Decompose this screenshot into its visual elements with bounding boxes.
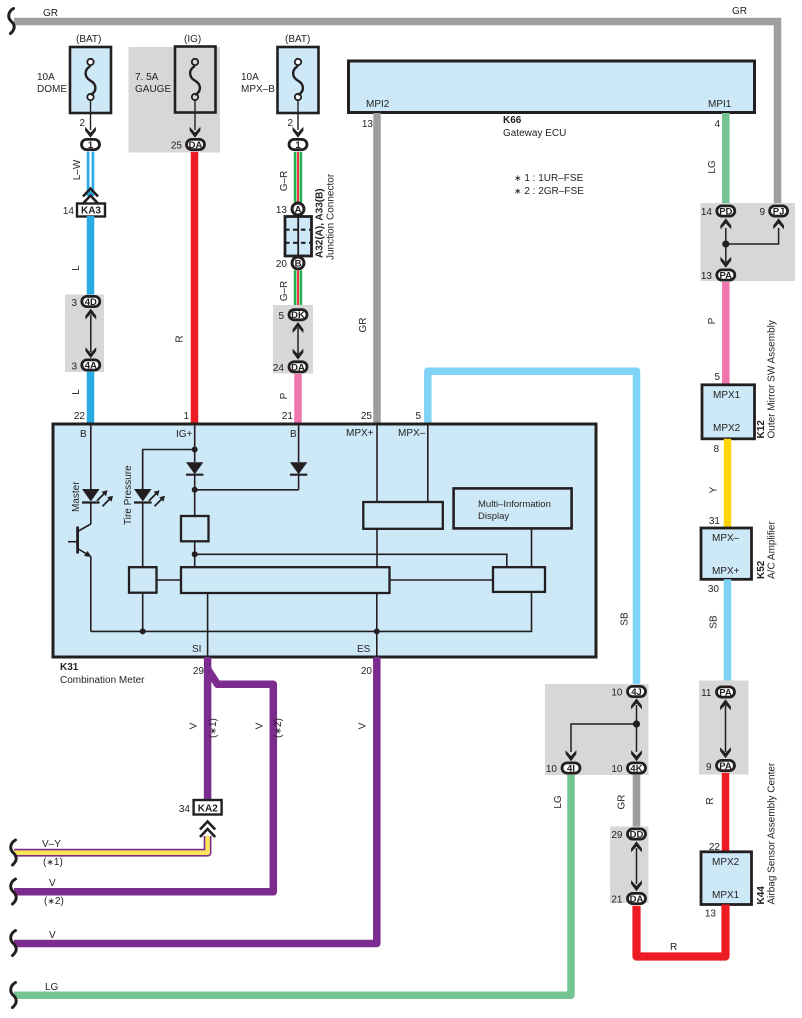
shield box PD/PJ/PA — [701, 203, 796, 281]
svg-text:4: 4 — [714, 119, 720, 130]
fuse F2 7.5A GAUGE — [135, 34, 216, 113]
svg-text:5: 5 — [714, 372, 720, 383]
svg-text:5: 5 — [278, 311, 284, 322]
shield box PA/PA — [699, 681, 749, 775]
wire Y (yellow) K12 pin 8 to K52 pin 31 — [709, 439, 728, 528]
svg-text:GR: GR — [732, 6, 747, 17]
wire G-R to connector DK — [279, 270, 298, 308]
svg-text:KA3: KA3 — [81, 206, 101, 217]
svg-text:7. 5A: 7. 5A — [135, 72, 159, 83]
svg-text:1: 1 — [295, 140, 301, 151]
block U4 (MPX transceiver) — [363, 502, 443, 567]
svg-text:V: V — [189, 722, 200, 729]
wire GR (gray) MPI2 pin 13 to meter pin 25 — [358, 113, 377, 424]
svg-text:14: 14 — [701, 207, 713, 218]
svg-text:MPI2: MPI2 — [366, 99, 390, 110]
svg-text:29: 29 — [193, 666, 205, 677]
svg-text:L–W: L–W — [72, 159, 83, 180]
svg-text:P: P — [279, 392, 290, 399]
connector 9 PA — [706, 760, 735, 773]
svg-text:G–R: G–R — [279, 171, 290, 192]
svg-text:(∗1): (∗1) — [43, 857, 63, 868]
svg-text:25: 25 — [171, 141, 183, 152]
block U5 Multi-Information Display — [454, 488, 572, 567]
connector 4A — [71, 360, 99, 373]
svg-text:24: 24 — [273, 363, 285, 374]
node IG+ / B diode join — [192, 475, 299, 516]
arrow pair PA/PA — [720, 699, 731, 758]
wire MPX- internal — [427, 424, 429, 502]
svg-text:MPX1: MPX1 — [712, 890, 740, 901]
label GR (top right) — [732, 6, 747, 17]
meter pin labels top — [80, 428, 426, 440]
wire L (blue) KA3 to 4D — [71, 216, 91, 297]
wire R (red) K44 pin 13 to DA junction — [670, 909, 716, 954]
svg-text:Airbag Sensor Assembly Center: Airbag Sensor Assembly Center — [767, 762, 778, 904]
svg-text:K52: K52 — [756, 560, 767, 579]
connector 1 (below DOME fuse) — [82, 139, 100, 151]
arrows into PD and PJ with junction — [720, 218, 784, 267]
svg-text:Y: Y — [709, 486, 720, 493]
block U3 (long CPU bar) — [181, 567, 390, 593]
svg-text:DOME: DOME — [37, 84, 67, 95]
svg-text:MPX+: MPX+ — [712, 566, 740, 577]
wire B(21) internal — [298, 424, 300, 462]
meter pin labels bottom — [192, 644, 372, 677]
svg-text:1: 1 — [88, 140, 94, 151]
connector 4D — [71, 296, 99, 309]
svg-text:Display: Display — [478, 511, 509, 522]
diode D2 (B pin 21) — [290, 462, 307, 490]
svg-text:GAUGE: GAUGE — [135, 84, 171, 95]
svg-text:10A: 10A — [37, 72, 55, 83]
svg-text:21: 21 — [611, 895, 623, 906]
svg-text:SB: SB — [620, 612, 631, 626]
wire V (violet) branch *2 — [14, 669, 284, 907]
LED Tire Pressure — [123, 450, 165, 568]
svg-text:13: 13 — [701, 271, 713, 282]
double chevron into KA3 — [83, 189, 98, 204]
svg-text:R: R — [670, 942, 677, 953]
svg-text:K44: K44 — [756, 886, 767, 905]
svg-text:20: 20 — [276, 259, 288, 270]
svg-text:G–R: G–R — [279, 281, 290, 302]
block U6 (right small) — [390, 567, 546, 592]
wire L (blue) 4A to meter pin 22 — [71, 372, 91, 424]
ECU K12 Outer Mirror SW Assembly — [702, 320, 778, 439]
svg-text:Gateway ECU: Gateway ECU — [503, 128, 566, 139]
svg-text:GR: GR — [43, 8, 58, 19]
svg-text:21: 21 — [282, 411, 294, 422]
arrows and junction 4J/4I/4K — [566, 698, 642, 761]
off-page break symbol (V *2) — [11, 879, 17, 904]
svg-text:A: A — [295, 205, 302, 216]
svg-text:PA: PA — [719, 761, 732, 772]
wire LG (light green) 4I to bottom left — [14, 775, 571, 996]
wire R (red) PA to K44 pin 22 — [705, 773, 726, 853]
wire V-Y (violet-yellow) to KA2 — [14, 836, 208, 868]
svg-text:DA: DA — [630, 894, 644, 905]
wire V (violet) SI pin 29 to KA2 — [189, 657, 220, 800]
ECU K66 Gateway ECU — [349, 61, 755, 139]
svg-text:IG+: IG+ — [176, 429, 193, 440]
svg-text:9: 9 — [759, 207, 765, 218]
off-page break symbol (V-Y) — [11, 840, 17, 865]
svg-text:ES: ES — [357, 644, 371, 655]
wire IG+ internal — [194, 424, 196, 462]
connector 1 (below MPX-B fuse) — [289, 139, 307, 151]
arrow pair DD/DA — [631, 841, 642, 891]
svg-text:10: 10 — [546, 764, 558, 775]
note *1 1UR-FSE — [514, 173, 584, 184]
svg-text:R: R — [175, 335, 186, 342]
block U2 (left small) — [129, 567, 181, 631]
svg-text:(∗2): (∗2) — [44, 896, 64, 907]
off-page break symbol (LG bottom) — [11, 983, 17, 1008]
wire fuse F3 output pin 2 — [287, 100, 303, 138]
svg-text:Junction Connector: Junction Connector — [326, 173, 337, 260]
svg-text:4K: 4K — [630, 764, 642, 775]
svg-text:B: B — [80, 429, 87, 440]
svg-text:Tire Pressure: Tire Pressure — [123, 465, 134, 525]
connector 21 DA — [611, 893, 645, 905]
svg-text:4I: 4I — [567, 764, 575, 775]
svg-text:LG: LG — [553, 795, 564, 809]
connector 25 DA — [171, 139, 205, 151]
svg-text:9: 9 — [706, 762, 712, 773]
svg-text:MPX2: MPX2 — [712, 857, 740, 868]
wire P (pink) DA to meter pin 21 — [279, 374, 298, 424]
svg-text:11: 11 — [701, 688, 712, 699]
connector 24 DA — [273, 362, 307, 374]
wire SI internal — [207, 593, 209, 657]
ECU K44 Airbag Sensor Assembly Center — [701, 762, 778, 904]
svg-text:∗ 1 : 1UR–FSE: ∗ 1 : 1UR–FSE — [514, 173, 584, 184]
svg-text:(BAT): (BAT) — [76, 34, 101, 45]
svg-text:14: 14 — [63, 206, 75, 217]
connector 10 4J — [611, 686, 645, 698]
svg-text:31: 31 — [709, 516, 721, 527]
svg-text:B: B — [290, 429, 297, 440]
wire bus link (y 554) — [195, 554, 507, 567]
wire P (pink) PA to K12 pin 5 — [707, 282, 726, 385]
svg-text:V: V — [49, 930, 56, 941]
ECU K31 Combination Meter — [53, 424, 596, 686]
diode D1 (IG+) — [186, 462, 203, 474]
note *2 2GR-FSE — [514, 186, 584, 197]
svg-text:30: 30 — [708, 584, 720, 595]
svg-text:K31: K31 — [60, 662, 79, 673]
svg-text:LG: LG — [45, 982, 59, 993]
svg-text:P: P — [707, 317, 718, 324]
svg-text:5: 5 — [415, 411, 421, 422]
shield box DK/DA — [273, 305, 313, 374]
svg-text:MPX–B: MPX–B — [241, 84, 275, 95]
svg-text:A/C Amplifier: A/C Amplifier — [767, 521, 778, 579]
svg-text:(BAT): (BAT) — [285, 34, 310, 45]
svg-text:R: R — [705, 797, 716, 804]
wire G-R to connector A — [279, 152, 298, 202]
block U1 (regulator below IG+) — [181, 516, 209, 567]
svg-text:GR: GR — [358, 318, 369, 333]
svg-text:MPX–: MPX– — [398, 428, 426, 439]
svg-text:10: 10 — [611, 764, 623, 775]
svg-text:KA2: KA2 — [198, 804, 218, 815]
svg-text:13: 13 — [362, 119, 374, 130]
svg-text:3: 3 — [71, 362, 77, 373]
svg-text:PA: PA — [719, 688, 732, 699]
wire R (red) DA to meter pin 1 — [175, 152, 195, 424]
connector 11 PA — [701, 687, 734, 699]
svg-text:PD: PD — [719, 207, 732, 218]
wire fuse F1 output pin 2 — [79, 100, 95, 138]
svg-text:PA: PA — [720, 271, 733, 282]
junction connector A32(A), A33(B) — [285, 173, 337, 260]
transistor Q (meter) — [68, 503, 92, 632]
svg-text:34: 34 — [179, 804, 191, 815]
svg-text:3: 3 — [71, 298, 77, 309]
svg-text:1: 1 — [183, 411, 189, 422]
connector 14 PD — [701, 206, 735, 218]
svg-text:20: 20 — [361, 666, 373, 677]
connector 10 4K — [611, 763, 645, 775]
wire GR top bus — [14, 22, 778, 204]
svg-text:∗ 2 : 2GR–FSE: ∗ 2 : 2GR–FSE — [514, 186, 584, 197]
connector 9 PJ — [759, 206, 787, 218]
arrow pair DK/DA — [293, 322, 304, 360]
svg-text:V–Y: V–Y — [42, 839, 61, 850]
connector B (pin 20) — [276, 257, 304, 270]
svg-text:GR: GR — [617, 795, 628, 810]
svg-text:SB: SB — [709, 615, 720, 629]
wire SB (sky blue) K52 pin 30 to 11 PA — [708, 579, 728, 685]
svg-text:Multi–Information: Multi–Information — [478, 499, 551, 510]
wire tire pressure top link to IG+ — [143, 447, 198, 490]
wire SB (sky blue) meter MPX- to 4J — [415, 371, 636, 685]
svg-text:MPX–: MPX– — [712, 533, 740, 544]
svg-text:4J: 4J — [631, 687, 642, 698]
LED Master — [71, 481, 113, 512]
arrow pair 4D/4A — [85, 309, 96, 359]
connector A (pin 13) — [276, 203, 304, 216]
svg-text:DA: DA — [291, 362, 305, 373]
junction block KA3 — [63, 204, 105, 218]
wire bottom internal bus — [91, 592, 532, 635]
wire B internal (master lamp branch) — [90, 424, 92, 489]
svg-text:(∗1): (∗1) — [208, 718, 219, 738]
svg-text:Outer Mirror SW Assembly: Outer Mirror SW Assembly — [767, 320, 778, 438]
shield box DD/DA — [610, 827, 649, 904]
svg-text:SI: SI — [192, 644, 201, 655]
connector 29 DD — [611, 829, 645, 841]
shield box 4D/4A — [65, 295, 104, 373]
svg-text:4D: 4D — [85, 297, 97, 308]
connector 13 PA — [701, 270, 735, 282]
svg-text:MPX1: MPX1 — [713, 390, 741, 401]
svg-text:V: V — [255, 722, 266, 729]
svg-text:13: 13 — [705, 909, 717, 920]
wire L-W (blue/white) — [72, 152, 91, 197]
wire LG (light green) MPI1 pin 4 to PD — [707, 113, 726, 204]
svg-text:MPI1: MPI1 — [708, 99, 732, 110]
svg-text:DD: DD — [630, 830, 644, 841]
off-page break symbol (V) — [11, 931, 17, 956]
svg-text:Combination Meter: Combination Meter — [60, 675, 145, 686]
svg-text:10A: 10A — [241, 72, 259, 83]
svg-text:PJ: PJ — [773, 207, 785, 218]
svg-text:13: 13 — [276, 205, 288, 216]
svg-text:A32(A), A33(B): A32(A), A33(B) — [315, 188, 326, 258]
svg-text:2: 2 — [287, 118, 293, 129]
connector 5 DK — [278, 310, 307, 322]
ECU K52 A/C Amplifier — [701, 521, 778, 580]
shield box 4J/4I/4K — [545, 684, 649, 775]
wire GR (gray) 4K to DD — [617, 775, 637, 827]
wire MPX+ internal — [376, 424, 378, 502]
svg-text:MPX2: MPX2 — [713, 423, 741, 434]
svg-text:MPX+: MPX+ — [346, 428, 374, 439]
svg-text:8: 8 — [713, 444, 719, 455]
double chevron into KA2 — [200, 822, 215, 838]
fuse F3 10A MPX-B — [241, 34, 319, 113]
svg-text:Master: Master — [71, 481, 82, 512]
wire fuse F2 output — [190, 100, 201, 138]
wire V (violet) ES pin 20 to bottom left — [14, 657, 377, 944]
svg-text:K12: K12 — [756, 420, 767, 439]
svg-text:4A: 4A — [85, 361, 97, 372]
svg-text:L: L — [71, 265, 82, 271]
svg-text:DA: DA — [189, 140, 203, 151]
off-page break symbol (top left) — [9, 9, 15, 34]
connector 10 4I — [546, 763, 580, 775]
wire ES internal — [376, 593, 378, 657]
svg-text:25: 25 — [361, 411, 373, 422]
svg-text:V: V — [49, 878, 56, 889]
svg-text:10: 10 — [611, 688, 623, 699]
svg-text:29: 29 — [611, 830, 623, 841]
junction block KA2 — [179, 800, 222, 815]
svg-text:V: V — [358, 722, 369, 729]
svg-text:2: 2 — [79, 118, 85, 129]
fuse F1 10A DOME — [37, 34, 111, 113]
label GR (top left) — [43, 8, 58, 19]
svg-text:(∗2): (∗2) — [273, 718, 284, 738]
svg-text:22: 22 — [74, 411, 86, 422]
svg-text:B: B — [295, 259, 302, 270]
svg-text:L: L — [71, 389, 82, 395]
svg-text:DK: DK — [291, 310, 305, 321]
svg-text:(IG): (IG) — [184, 34, 201, 45]
svg-text:LG: LG — [707, 160, 718, 174]
shield box GAUGE fuse — [129, 47, 221, 153]
svg-text:K66: K66 — [503, 115, 522, 126]
wire R (red) DA down, right, up to K44 pin 13 — [637, 905, 726, 957]
